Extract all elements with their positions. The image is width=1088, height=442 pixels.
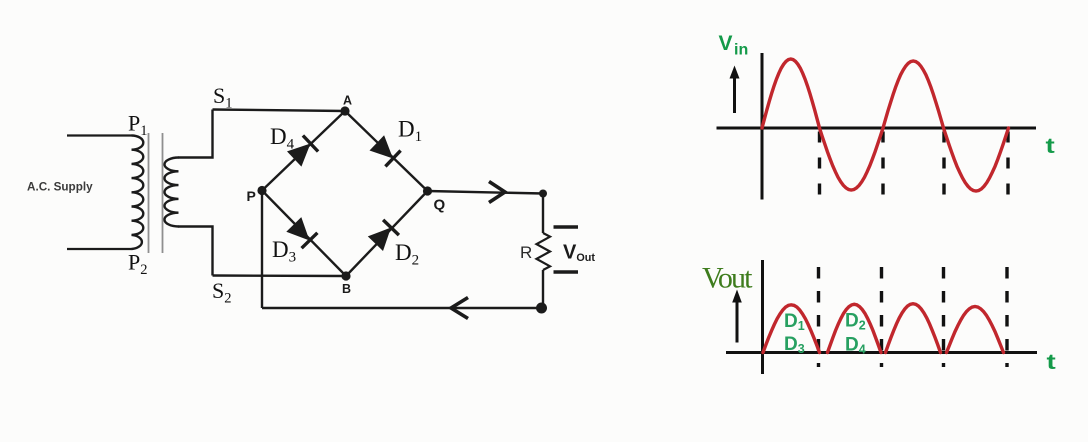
- Vout hump 4: [947, 307, 1004, 353]
- dashed marker 3 (Vin): [942, 132, 945, 200]
- dashed marker 3 (Vout): [942, 267, 945, 367]
- svg-text:P1: P1: [128, 111, 148, 140]
- wire P to B: [262, 191, 346, 277]
- svg-text:Vin: Vin: [719, 32, 749, 59]
- wire load bottom rail to P: [262, 307, 542, 309]
- wire S1 to node A: [213, 110, 346, 112]
- svg-text:D4: D4: [270, 124, 295, 153]
- wire primary top lead: [67, 134, 132, 136]
- dashed marker 4 (Vin): [1006, 132, 1009, 200]
- current arrow left: [451, 298, 468, 319]
- Vout terminal bar top: [554, 225, 579, 229]
- junction bottom: [536, 303, 547, 314]
- svg-text:B: B: [342, 282, 351, 296]
- svg-text:t: t: [1047, 351, 1056, 374]
- svg-text:Vout: Vout: [702, 262, 753, 295]
- diode D1: [370, 135, 401, 166]
- svg-text:P2: P2: [128, 250, 148, 279]
- Vin axis up arrow: [730, 66, 740, 114]
- wire resistor to junction bottom: [542, 270, 544, 308]
- Vin x-axis: [717, 127, 1037, 130]
- svg-text:Q: Q: [434, 197, 446, 214]
- svg-text:R: R: [520, 243, 532, 262]
- wire A to Q: [345, 111, 428, 191]
- wire A to P: [262, 111, 345, 191]
- Vout hump 3: [886, 304, 941, 353]
- diode D2: [368, 220, 399, 251]
- Vout y-axis: [761, 260, 764, 374]
- secondary winding S1-S2: [165, 158, 179, 227]
- svg-text:D3: D3: [784, 334, 805, 356]
- wire S2 riser: [178, 227, 213, 276]
- svg-text:VOut: VOut: [563, 242, 595, 264]
- dashed marker 1 (Vout): [817, 267, 820, 367]
- dashed marker 4 (Vout): [1005, 267, 1008, 367]
- Vout hump 1: [763, 305, 820, 353]
- node P: [257, 186, 266, 195]
- Vout axis up arrow: [732, 290, 742, 343]
- svg-text:A: A: [343, 94, 352, 108]
- svg-text:S2: S2: [212, 278, 232, 307]
- current arrow right: [489, 182, 505, 203]
- svg-text:D1: D1: [398, 117, 422, 146]
- resistor R: [537, 233, 551, 270]
- Vout hump 2: [828, 304, 882, 352]
- svg-text:A.C. Supply: A.C. Supply: [27, 181, 93, 194]
- transformer core: [149, 133, 163, 253]
- svg-text:D4: D4: [845, 335, 866, 357]
- Vout terminal bar bottom: [554, 270, 579, 274]
- svg-text:P: P: [247, 188, 256, 204]
- Vin sine wave: [762, 59, 1009, 191]
- wire Q to load top: [428, 191, 544, 194]
- svg-text:S1: S1: [213, 83, 233, 112]
- wire S2 to node B: [213, 274, 347, 277]
- dashed marker 2 (Vout): [880, 267, 883, 367]
- primary winding P1-P2: [132, 136, 144, 249]
- node A: [340, 106, 349, 115]
- svg-text:D2: D2: [845, 311, 866, 333]
- diode D3: [286, 217, 317, 248]
- wire B to Q: [346, 191, 428, 276]
- Vin y-axis: [761, 53, 764, 200]
- diode D4: [287, 136, 318, 167]
- node Q: [423, 186, 432, 195]
- svg-text:t: t: [1046, 135, 1055, 158]
- svg-text:D3: D3: [272, 237, 296, 266]
- wire junction to resistor: [542, 194, 544, 234]
- dashed marker 1 (Vin): [818, 132, 821, 200]
- wire S1 riser: [178, 110, 213, 158]
- wire primary bottom lead: [67, 248, 132, 250]
- node B: [341, 271, 350, 280]
- Vout x-axis: [726, 351, 1037, 354]
- junction top: [539, 190, 547, 198]
- wire P down to rail: [261, 191, 263, 309]
- svg-text:D2: D2: [395, 240, 419, 269]
- dashed marker 2 (Vin): [881, 132, 884, 200]
